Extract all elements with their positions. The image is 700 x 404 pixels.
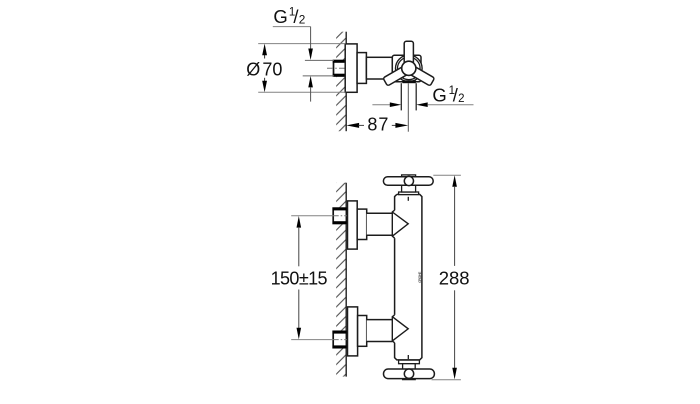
- handle skirt rings: [396, 55, 423, 82]
- top handle bar: [383, 177, 433, 186]
- wall line (front view): [345, 183, 347, 377]
- svg-text:Ø70: Ø70: [246, 59, 282, 79]
- outlet centerline: [407, 83, 409, 132]
- top inlet nut: [333, 208, 347, 223]
- bottom inlet centerline: [291, 339, 347, 341]
- svg-text:G: G: [273, 6, 287, 27]
- escutcheon flange Ø70 (side view): [345, 44, 357, 92]
- G1/2 outlet dimension line: [372, 102, 473, 107]
- dark band under handle: [402, 80, 415, 83]
- handle spoke lower-left: [383, 65, 410, 86]
- thermostat body: [395, 194, 422, 360]
- dia70 extension line bottom: [258, 91, 345, 93]
- bottom inlet cone: [392, 315, 408, 343]
- top handle block: [402, 175, 416, 192]
- bottom rosette: [348, 307, 358, 356]
- bottom s-union step: [358, 316, 367, 347]
- leader line from G1/2 top: [273, 27, 313, 60]
- body step (side view): [357, 53, 366, 84]
- wall line (side view): [345, 32, 347, 132]
- 87 dimension line: [346, 123, 408, 128]
- 288 extension line top: [433, 174, 461, 176]
- bottom inlet nut: [333, 331, 347, 347]
- handle mount block (side view): [392, 55, 421, 81]
- top inlet cone: [392, 210, 408, 238]
- bottom inlet pipe: [367, 320, 393, 342]
- label G 1/2 right: [432, 85, 464, 106]
- svg-text:87: 87: [367, 114, 389, 134]
- bottom handle block: [403, 364, 416, 380]
- valve body (side view): [366, 57, 392, 79]
- top collar: [399, 192, 419, 195]
- bottom tick: [407, 355, 409, 359]
- top s-union step: [357, 209, 367, 239]
- wall hatching (side view): [336, 32, 346, 132]
- top inlet pipe: [367, 213, 393, 235]
- wall hatching (front view): [336, 183, 346, 377]
- top handle circle: [404, 176, 413, 185]
- dia70 extension line top: [258, 43, 345, 45]
- dia70 dimension line with arrows: [262, 44, 267, 93]
- top tick: [407, 197, 409, 201]
- handle spoke up: [404, 41, 413, 67]
- 150±15 dimension line: [297, 216, 302, 339]
- bottom collar: [399, 360, 420, 364]
- svg-text:G: G: [432, 85, 446, 106]
- handle spoke lower-right: [408, 65, 435, 86]
- svg-text:2: 2: [458, 93, 464, 105]
- label G 1/2 top: [273, 6, 305, 27]
- stub centerline: [327, 67, 348, 69]
- 288 dimension line: [452, 175, 457, 379]
- bottom handle circle: [404, 369, 413, 378]
- svg-text:GROHE: GROHE: [418, 271, 422, 283]
- top rosette: [348, 201, 358, 249]
- top inlet centerline: [291, 215, 347, 217]
- threaded wall stub G1/2 (side view): [333, 61, 347, 77]
- handle hub: [402, 61, 416, 75]
- svg-text:288: 288: [439, 268, 470, 289]
- bottom handle bar: [384, 369, 435, 379]
- stub bottom extension: [303, 75, 334, 77]
- stub top extension: [305, 59, 334, 61]
- 288 extension line bottom: [432, 379, 461, 381]
- svg-text:150±15: 150±15: [271, 269, 328, 289]
- svg-text:2: 2: [299, 13, 306, 27]
- leader arrow up at stub bottom: [308, 76, 313, 102]
- outlet stub below handle: [401, 83, 416, 110]
